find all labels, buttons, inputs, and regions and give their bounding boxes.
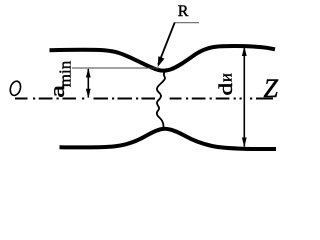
dimension a_min: vertical double arrow <box>87 69 89 98</box>
svg-text:Z: Z <box>264 74 279 103</box>
leader line for R (diagonal) <box>158 23 175 65</box>
leader line for R (shelf) <box>175 22 200 24</box>
svg-text:d: d <box>215 83 236 96</box>
dimension d: vertical double arrow <box>243 48 245 147</box>
label O (axis origin, drawn oval) <box>9 80 23 97</box>
svg-text:min: min <box>56 60 75 87</box>
upper contour of specimen (thick outline with neck dip) <box>50 46 276 71</box>
extension line for a_min (thin) <box>72 67 159 69</box>
fracture squiggle line at neck <box>157 69 167 128</box>
leader arrowhead <box>158 56 165 67</box>
axis line O-Z (dash-dot centerline) <box>15 98 273 100</box>
svg-text:и: и <box>217 73 236 82</box>
lower contour of specimen (thick outline with neck hump) <box>60 129 277 149</box>
svg-text:R: R <box>178 3 189 20</box>
